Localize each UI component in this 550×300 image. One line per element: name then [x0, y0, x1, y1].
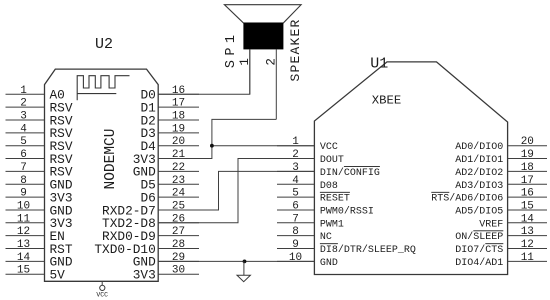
svg-text:2: 2 — [292, 149, 299, 161]
svg-text:18: 18 — [521, 162, 534, 174]
svg-text:SPEAKER: SPEAKER — [288, 18, 303, 81]
svg-text:4: 4 — [292, 175, 299, 187]
svg-text:GND: GND — [320, 258, 338, 269]
svg-text:DIN/CONFIG: DIN/CONFIG — [320, 167, 380, 179]
svg-text:AD1/DIO1: AD1/DIO1 — [455, 154, 503, 166]
svg-text:29: 29 — [172, 252, 185, 264]
svg-text:2: 2 — [20, 98, 27, 110]
svg-text:NC: NC — [320, 232, 332, 243]
svg-text:11: 11 — [521, 252, 535, 264]
svg-text:13: 13 — [17, 239, 30, 251]
svg-text:1: 1 — [20, 85, 27, 97]
svg-text:26: 26 — [172, 213, 185, 225]
svg-text:3: 3 — [292, 162, 299, 174]
svg-text:DOUT: DOUT — [320, 155, 344, 166]
svg-text:VREF: VREF — [479, 219, 503, 230]
svg-text:RESET: RESET — [320, 194, 350, 205]
svg-text:22: 22 — [172, 162, 185, 174]
svg-text:19: 19 — [521, 149, 534, 161]
svg-text:16: 16 — [521, 188, 534, 200]
svg-text:17: 17 — [521, 175, 534, 187]
svg-text:9: 9 — [292, 239, 299, 251]
svg-text:8: 8 — [292, 226, 299, 238]
svg-text:DI8/DTR/SLEEP_RQ: DI8/DTR/SLEEP_RQ — [320, 244, 416, 256]
svg-text:12: 12 — [17, 226, 30, 238]
svg-text:RTS/AD6/DIO6: RTS/AD6/DIO6 — [431, 193, 503, 205]
svg-text:VCC: VCC — [96, 292, 108, 299]
svg-text:21: 21 — [172, 149, 186, 161]
svg-text:20: 20 — [172, 136, 185, 148]
svg-text:5: 5 — [292, 188, 299, 200]
svg-text:7: 7 — [292, 213, 299, 225]
svg-text:XBEE: XBEE — [372, 94, 402, 108]
svg-text:PWM0/RSSI: PWM0/RSSI — [320, 205, 374, 217]
svg-text:20: 20 — [521, 136, 534, 148]
svg-text:1: 1 — [292, 136, 299, 148]
svg-text:27: 27 — [172, 226, 185, 238]
svg-text:19: 19 — [172, 123, 185, 135]
svg-text:10: 10 — [17, 200, 30, 212]
svg-text:4: 4 — [20, 123, 27, 135]
svg-text:10: 10 — [289, 252, 302, 264]
svg-text:U1: U1 — [370, 55, 388, 72]
svg-text:14: 14 — [17, 252, 31, 264]
svg-text:15: 15 — [17, 265, 30, 277]
svg-text:13: 13 — [521, 226, 534, 238]
svg-text:17: 17 — [172, 98, 185, 110]
svg-text:SP1: SP1 — [224, 31, 239, 69]
svg-text:AD2/DIO2: AD2/DIO2 — [455, 167, 503, 179]
svg-text:14: 14 — [521, 213, 535, 225]
svg-text:28: 28 — [172, 239, 185, 251]
svg-text:6: 6 — [20, 149, 27, 161]
svg-text:AD5/DIO5: AD5/DIO5 — [455, 205, 503, 217]
svg-text:U2: U2 — [95, 36, 113, 53]
svg-text:NODEMCU: NODEMCU — [103, 129, 119, 190]
svg-text:9: 9 — [20, 188, 27, 200]
svg-text:30: 30 — [172, 265, 185, 277]
svg-text:D08: D08 — [320, 181, 338, 192]
svg-text:15: 15 — [521, 200, 534, 212]
svg-text:11: 11 — [17, 213, 31, 225]
svg-text:PWM1: PWM1 — [320, 219, 344, 230]
svg-text:AD0/DIO0: AD0/DIO0 — [455, 141, 503, 153]
svg-text:18: 18 — [172, 111, 185, 123]
svg-text:23: 23 — [172, 175, 185, 187]
svg-text:AD3/DIO3: AD3/DIO3 — [455, 180, 503, 192]
svg-text:3V3: 3V3 — [133, 268, 156, 283]
svg-text:24: 24 — [172, 188, 186, 200]
svg-text:VCC: VCC — [320, 142, 338, 153]
svg-text:DIO4/AD1: DIO4/AD1 — [455, 257, 503, 269]
svg-text:5: 5 — [20, 136, 27, 148]
svg-text:7: 7 — [20, 162, 27, 174]
svg-text:2: 2 — [264, 58, 278, 66]
svg-text:6: 6 — [292, 200, 299, 212]
svg-text:8: 8 — [20, 175, 27, 187]
svg-text:16: 16 — [172, 85, 185, 97]
svg-text:DIO7/CTS: DIO7/CTS — [455, 244, 503, 256]
svg-text:5V: 5V — [50, 268, 66, 283]
svg-text:3: 3 — [20, 111, 27, 123]
svg-text:ON/SLEEP: ON/SLEEP — [455, 231, 503, 243]
svg-text:25: 25 — [172, 200, 185, 212]
svg-text:12: 12 — [521, 239, 534, 251]
